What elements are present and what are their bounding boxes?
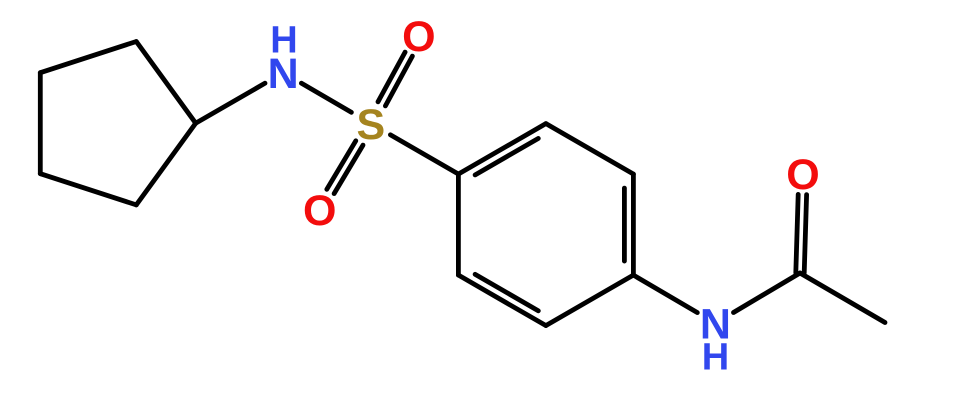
svg-text:O: O	[303, 187, 336, 235]
svg-text:O: O	[786, 151, 819, 199]
svg-text:S: S	[357, 101, 386, 149]
svg-text:H: H	[702, 337, 729, 379]
svg-text:N: N	[268, 50, 299, 98]
svg-text:O: O	[402, 13, 435, 61]
